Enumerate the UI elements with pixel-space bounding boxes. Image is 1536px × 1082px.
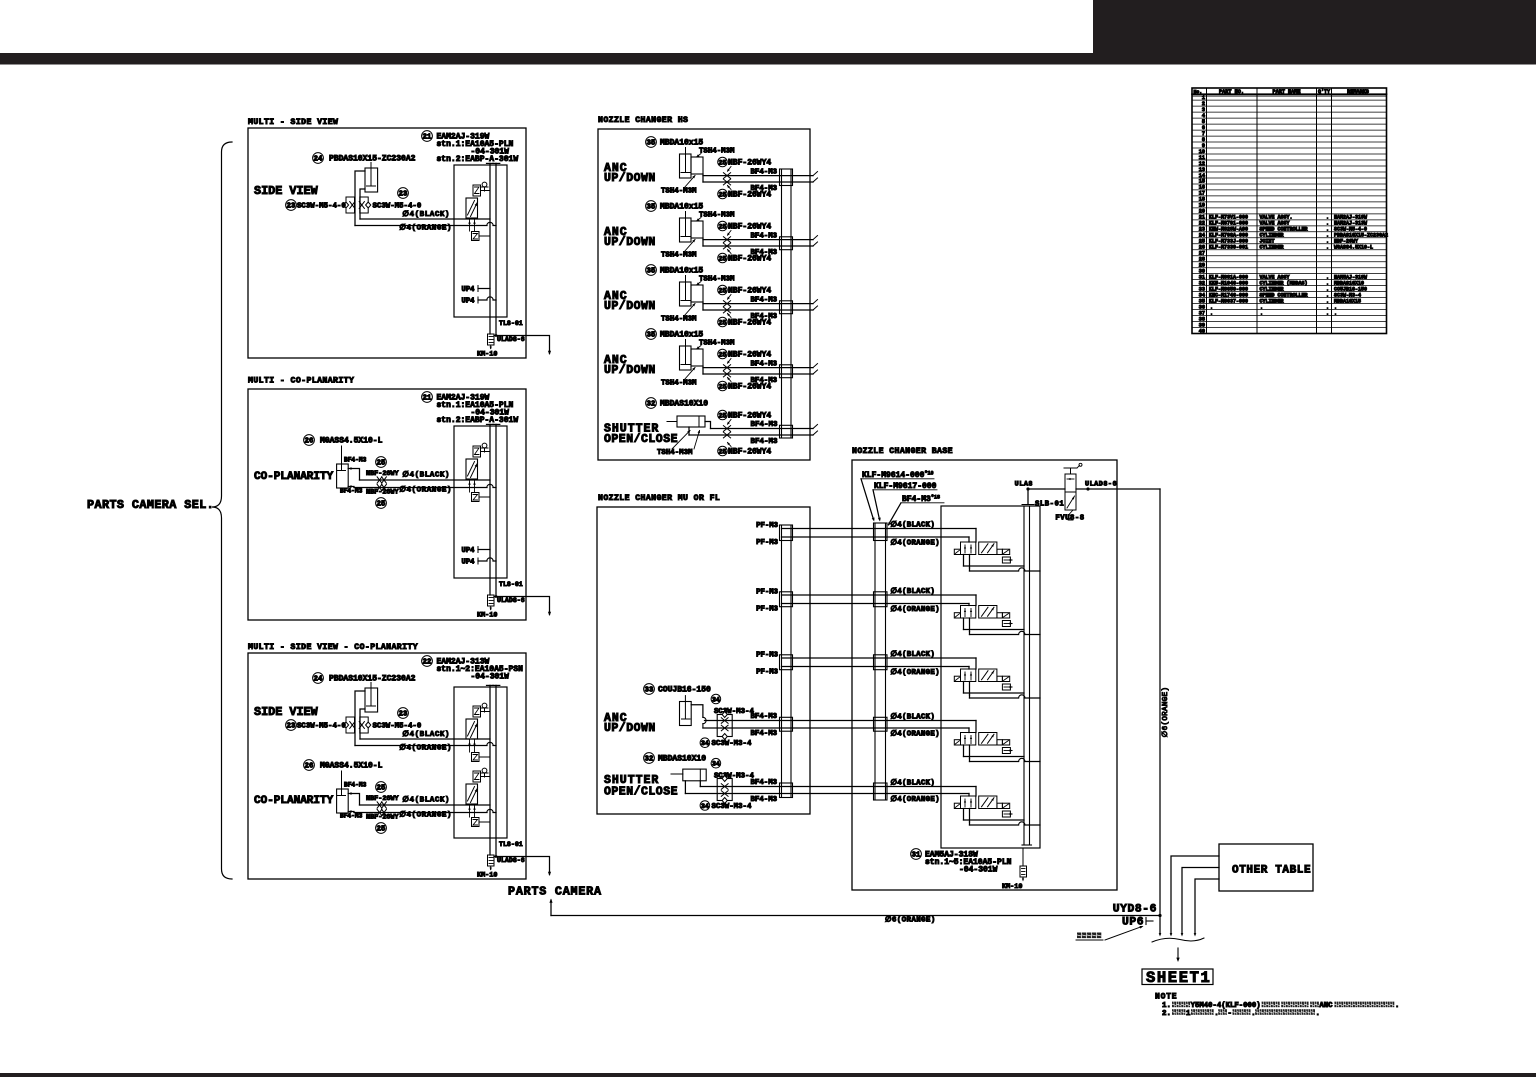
svg-text:∅4(BLACK): ∅4(BLACK) <box>402 730 450 739</box>
svg-text:PBDAS10X15-ZC230A2: PBDAS10X15-ZC230A2 <box>329 155 416 164</box>
svg-text:23: 23 <box>399 711 408 719</box>
svg-text:TL8-01: TL8-01 <box>499 841 523 848</box>
svg-text:MBDA10x15: MBDA10x15 <box>660 331 703 340</box>
svg-text:UP4: UP4 <box>462 559 476 567</box>
svg-text:.: . <box>1316 1010 1321 1018</box>
svg-text:OTHER TABLE: OTHER TABLE <box>1232 865 1311 877</box>
svg-text:SIDE VIEW: SIDE VIEW <box>254 705 319 719</box>
svg-text:TSH4-M3M: TSH4-M3M <box>699 148 735 156</box>
svg-text:BF4-M3: BF4-M3 <box>751 185 778 193</box>
svg-text:UP/DOWN: UP/DOWN <box>604 236 656 249</box>
svg-text:35: 35 <box>647 268 656 276</box>
svg-text:∅4(ORANGE): ∅4(ORANGE) <box>399 744 452 753</box>
svg-text:NOZZLE CHANGER HS: NOZZLE CHANGER HS <box>598 116 688 125</box>
svg-text:25: 25 <box>377 785 386 793</box>
svg-text:PART NO.: PART NO. <box>1219 89 1244 95</box>
svg-text:UP/DOWN: UP/DOWN <box>604 364 656 377</box>
svg-text:MULTI - CO-PLANARITY: MULTI - CO-PLANARITY <box>248 377 354 386</box>
svg-text:PF-M3: PF-M3 <box>756 606 779 614</box>
svg-text:26: 26 <box>305 763 314 771</box>
svg-text:31: 31 <box>912 852 921 860</box>
svg-text:TSH4-M3M: TSH4-M3M <box>661 252 697 260</box>
svg-text:MULTI - SIDE VIEW: MULTI - SIDE VIEW <box>248 118 338 127</box>
svg-text:UP/DOWN: UP/DOWN <box>604 172 656 185</box>
svg-text:Q'TY: Q'TY <box>1318 89 1330 95</box>
svg-text:NBF-26WY4: NBF-26WY4 <box>728 287 771 296</box>
svg-text:.: . <box>1210 310 1213 316</box>
svg-text:34: 34 <box>712 761 720 768</box>
svg-text:25: 25 <box>377 826 386 834</box>
svg-text:MBDAS10X10: MBDAS10X10 <box>660 400 708 409</box>
svg-text:TL8-01: TL8-01 <box>499 320 523 327</box>
svg-text:KM-10: KM-10 <box>477 872 497 880</box>
svg-text:BF4-M3: BF4-M3 <box>751 377 778 385</box>
svg-text:34: 34 <box>701 740 709 747</box>
svg-text:TSH4-M3M: TSH4-M3M <box>661 380 697 388</box>
svg-text:BF4-M3: BF4-M3 <box>751 713 778 721</box>
svg-text:.: . <box>1395 1002 1400 1010</box>
svg-text:PF-M3: PF-M3 <box>756 669 779 677</box>
svg-text:SIDE VIEW: SIDE VIEW <box>254 184 319 198</box>
svg-text:CO-PLANARITY: CO-PLANARITY <box>254 471 334 483</box>
svg-text:25: 25 <box>719 319 727 326</box>
svg-text:MBDA10x15: MBDA10x15 <box>660 139 703 148</box>
svg-text:25: 25 <box>719 159 727 166</box>
svg-text:NBF-26WY: NBF-26WY <box>366 795 400 803</box>
svg-text:BF4-M3: BF4-M3 <box>344 457 367 464</box>
svg-text:∅4(BLACK): ∅4(BLACK) <box>891 587 936 596</box>
svg-text:∅4(ORANGE): ∅4(ORANGE) <box>399 811 452 820</box>
svg-text:-04-301W: -04-301W <box>959 866 998 875</box>
svg-text:ULAD8-6: ULAD8-6 <box>497 336 525 343</box>
svg-text:∅4(BLACK): ∅4(BLACK) <box>402 471 450 480</box>
svg-text:BF4-M3: BF4-M3 <box>751 438 779 446</box>
svg-text:*18: *18 <box>931 495 940 501</box>
svg-text:CYLINDER: CYLINDER <box>1260 245 1284 251</box>
svg-text:34: 34 <box>712 696 720 703</box>
svg-text:MGASS4.5X10-L: MGASS4.5X10-L <box>320 762 383 771</box>
svg-text:NBF-26WY4: NBF-26WY4 <box>728 159 771 168</box>
svg-text:32: 32 <box>645 756 654 764</box>
svg-text:SC3W-M5-4-0: SC3W-M5-4-0 <box>373 203 422 211</box>
svg-text:∅4(BLACK): ∅4(BLACK) <box>891 779 936 788</box>
svg-text:SC3W-M3-4: SC3W-M3-4 <box>712 803 752 811</box>
svg-text:23: 23 <box>287 723 296 731</box>
svg-text:32: 32 <box>647 401 656 409</box>
svg-text:∅6(ORANGE): ∅6(ORANGE) <box>885 916 936 925</box>
svg-text:NBF-26WY4: NBF-26WY4 <box>728 412 771 421</box>
svg-text:TSH4-M3M: TSH4-M3M <box>661 188 697 196</box>
svg-text:25: 25 <box>719 412 727 419</box>
svg-text:∅4(ORANGE): ∅4(ORANGE) <box>399 224 452 233</box>
svg-text:.: . <box>1260 310 1263 316</box>
svg-text:.: . <box>1214 1010 1219 1018</box>
svg-text:CYLINDER: CYLINDER <box>1260 298 1284 304</box>
svg-text:FVU8-8: FVU8-8 <box>1055 515 1084 523</box>
svg-text:PARTS CAMERA: PARTS CAMERA <box>508 885 602 899</box>
svg-text:SC3W-M5-4-0: SC3W-M5-4-0 <box>297 723 346 731</box>
svg-text:UP4: UP4 <box>462 286 476 294</box>
svg-text:TL8-01: TL8-01 <box>499 581 523 588</box>
svg-text:NBF-26WY: NBF-26WY <box>366 470 400 478</box>
svg-text:stn.2:EABP-A-301W: stn.2:EABP-A-301W <box>437 416 519 425</box>
svg-text:BF4-M3: BF4-M3 <box>340 813 363 820</box>
svg-text:PART NAME: PART NAME <box>1272 89 1300 95</box>
svg-text:NBF-26WY4: NBF-26WY4 <box>728 351 771 360</box>
svg-text:NBF-26WY4: NBF-26WY4 <box>728 223 771 232</box>
svg-text:ANC: ANC <box>1319 1002 1333 1010</box>
svg-text:25: 25 <box>719 351 727 358</box>
svg-text:BF4-M3: BF4-M3 <box>751 421 779 429</box>
svg-text:∅4(ORANGE): ∅4(ORANGE) <box>891 539 940 548</box>
svg-text:∅4(BLACK): ∅4(BLACK) <box>402 796 450 805</box>
svg-text:21: 21 <box>423 395 432 403</box>
svg-text:No.: No. <box>1194 89 1203 95</box>
svg-text:SHEET1: SHEET1 <box>1146 969 1211 987</box>
svg-text:∅4(ORANGE): ∅4(ORANGE) <box>891 668 940 677</box>
svg-text:.: . <box>1334 310 1337 316</box>
svg-text:SC3W-M3-4: SC3W-M3-4 <box>712 740 752 748</box>
svg-text:TSH4-M3M: TSH4-M3M <box>657 449 693 457</box>
svg-text:∅6(ORANGE): ∅6(ORANGE) <box>1161 687 1170 738</box>
svg-text:KLF-M8637-000: KLF-M8637-000 <box>1209 298 1248 304</box>
svg-text:KM-10: KM-10 <box>1002 883 1022 891</box>
svg-text:25: 25 <box>377 501 386 509</box>
svg-text:TSH4-M3M: TSH4-M3M <box>699 340 735 348</box>
svg-text:MBDA10x15: MBDA10x15 <box>660 203 703 212</box>
svg-text:TSH4-M3M: TSH4-M3M <box>699 212 735 220</box>
svg-text:PF-M3: PF-M3 <box>756 652 779 660</box>
svg-text:MULTI - SIDE VIEW - CO-PLANARI: MULTI - SIDE VIEW - CO-PLANARITY <box>248 643 418 652</box>
svg-text:2.: 2. <box>1162 1010 1171 1018</box>
svg-text:-: - <box>1228 1010 1232 1018</box>
svg-text:.: . <box>1251 1010 1256 1018</box>
svg-text:*10: *10 <box>925 471 934 477</box>
svg-text:∅4(BLACK): ∅4(BLACK) <box>891 713 936 722</box>
svg-text:SC3W-M3-4: SC3W-M3-4 <box>714 772 754 780</box>
svg-text:ULAD8-6: ULAD8-6 <box>497 857 525 864</box>
svg-text:MBDA10x15: MBDA10x15 <box>660 267 703 276</box>
svg-text:CO-PLANARITY: CO-PLANARITY <box>254 795 334 807</box>
svg-text:34: 34 <box>701 803 709 810</box>
svg-text:MGASS4.5X10-L: MGASS4.5X10-L <box>320 437 383 446</box>
svg-text:REMARKS: REMARKS <box>1347 89 1369 95</box>
svg-text:ULAD8-6: ULAD8-6 <box>1085 481 1117 489</box>
svg-text:40: 40 <box>1199 328 1205 334</box>
svg-text:PF-M3: PF-M3 <box>756 539 779 547</box>
svg-text:PF-M3: PF-M3 <box>756 522 779 530</box>
svg-text:25: 25 <box>719 383 727 390</box>
svg-text:24: 24 <box>314 156 323 164</box>
svg-text:SC3W-M5-4-0: SC3W-M5-4-0 <box>297 203 346 211</box>
svg-text:KM-10: KM-10 <box>477 351 497 359</box>
svg-text:UP4: UP4 <box>462 547 476 555</box>
svg-text:25: 25 <box>719 448 727 455</box>
svg-text:MBDA10X15: MBDA10X15 <box>1334 298 1361 304</box>
svg-text:26: 26 <box>305 438 314 446</box>
svg-text:UP4: UP4 <box>462 298 476 306</box>
svg-text:1: 1 <box>1186 1010 1191 1018</box>
svg-text:PBDAS10X15-ZC230A2: PBDAS10X15-ZC230A2 <box>329 675 416 684</box>
svg-text:OPEN/CLOSE: OPEN/CLOSE <box>604 433 678 446</box>
svg-text:COUJB16-150: COUJB16-150 <box>658 686 711 695</box>
svg-text:KLF-M7339-001: KLF-M7339-001 <box>1209 245 1248 251</box>
svg-text:ULA8: ULA8 <box>1015 481 1033 489</box>
svg-text:25: 25 <box>719 191 727 198</box>
svg-text:BF4-M3: BF4-M3 <box>344 782 367 789</box>
svg-text:25: 25 <box>719 255 727 262</box>
svg-text:NBF-26WY: NBF-26WY <box>366 489 400 497</box>
svg-text:SC3W-M5-4-0: SC3W-M5-4-0 <box>373 723 422 731</box>
svg-text:23: 23 <box>287 203 296 211</box>
svg-text:35: 35 <box>647 204 656 212</box>
svg-text:SLB-01: SLB-01 <box>1035 501 1064 509</box>
svg-text:ULAD8-6: ULAD8-6 <box>497 597 525 604</box>
svg-text:MBDAS10X10: MBDAS10X10 <box>658 755 706 764</box>
svg-text:PARTS CAMERA SEL.: PARTS CAMERA SEL. <box>87 498 214 512</box>
svg-text:∅4(BLACK): ∅4(BLACK) <box>891 650 936 659</box>
svg-text:BF4-M3: BF4-M3 <box>340 488 363 495</box>
svg-text:∅4(BLACK): ∅4(BLACK) <box>891 521 936 530</box>
svg-text:BF4-M3: BF4-M3 <box>751 249 778 257</box>
svg-text:PF-M3: PF-M3 <box>756 589 779 597</box>
svg-text:∅4(ORANGE): ∅4(ORANGE) <box>891 730 940 739</box>
svg-text:22: 22 <box>423 659 432 667</box>
svg-text:25: 25 <box>377 460 386 468</box>
svg-text:UP/DOWN: UP/DOWN <box>604 300 656 313</box>
svg-text:∅4(ORANGE): ∅4(ORANGE) <box>399 486 452 495</box>
svg-text:∅4(ORANGE): ∅4(ORANGE) <box>891 605 940 614</box>
svg-text:WGASS4.5X10-L: WGASS4.5X10-L <box>1334 245 1373 251</box>
svg-text:NOZZLE CHANGER MU OR FL: NOZZLE CHANGER MU OR FL <box>598 494 720 503</box>
svg-text:BF4-M3: BF4-M3 <box>751 730 778 738</box>
svg-text:BF4-M3: BF4-M3 <box>751 313 778 321</box>
svg-text:BF4-M3: BF4-M3 <box>751 796 778 804</box>
svg-text:35: 35 <box>647 332 656 340</box>
svg-text:24: 24 <box>314 676 323 684</box>
svg-text:NBF-26WY4: NBF-26WY4 <box>728 448 771 457</box>
svg-text:NOZZLE CHANGER BASE: NOZZLE CHANGER BASE <box>852 447 953 456</box>
svg-text:NBF-26WY: NBF-26WY <box>366 814 400 822</box>
svg-text:25: 25 <box>719 223 727 230</box>
svg-text:stn.2:EABP-A-301W: stn.2:EABP-A-301W <box>437 155 519 164</box>
svg-text:∅4(BLACK): ∅4(BLACK) <box>402 210 450 219</box>
svg-text:BF4-M3: BF4-M3 <box>751 779 778 787</box>
svg-text:NOTE: NOTE <box>1155 993 1177 1002</box>
svg-text:∅4(ORANGE): ∅4(ORANGE) <box>891 795 940 804</box>
svg-text:UYD8-6: UYD8-6 <box>1113 904 1157 916</box>
svg-text:23: 23 <box>399 191 408 199</box>
svg-text:UP/DOWN: UP/DOWN <box>604 722 656 735</box>
svg-text:33: 33 <box>645 687 654 695</box>
svg-text:TSH4-M3M: TSH4-M3M <box>699 276 735 284</box>
svg-text:TSH4-M3M: TSH4-M3M <box>661 316 697 324</box>
svg-text:KM-10: KM-10 <box>477 612 497 620</box>
svg-text:.: . <box>1326 310 1329 316</box>
svg-text:25: 25 <box>719 287 727 294</box>
svg-text:.: . <box>1326 245 1329 251</box>
svg-text:35: 35 <box>647 140 656 148</box>
svg-text:OPEN/CLOSE: OPEN/CLOSE <box>604 786 678 799</box>
svg-text:21: 21 <box>423 134 432 142</box>
svg-text:-04-301W: -04-301W <box>471 673 510 682</box>
